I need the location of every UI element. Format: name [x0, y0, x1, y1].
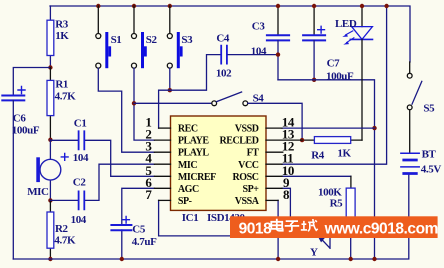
microphone MIC [27, 140, 68, 201]
wire pin7 SP- run under IC [159, 200, 322, 236]
pin 13 lead [266, 139, 302, 141]
wire S3 node to pin1 riser and to C4 [159, 55, 221, 129]
svg-text:C4: C4 [216, 33, 230, 45]
svg-text:ROSC: ROSC [233, 172, 259, 183]
wire S2 node to S4 [134, 102, 212, 104]
op-amp IC1 ISD1420 body [171, 116, 267, 224]
svg-text:4.5V: 4.5V [421, 164, 442, 176]
battery BT 4.5V [401, 149, 441, 176]
svg-text:104: 104 [71, 214, 87, 226]
svg-text:4.7K: 4.7K [55, 90, 77, 102]
svg-text:VCC: VCC [238, 160, 259, 171]
pin 5 lead [154, 175, 170, 177]
node junction S3 top rail [168, 4, 172, 8]
svg-text:S3: S3 [181, 34, 193, 46]
svg-text:102: 102 [216, 68, 232, 80]
watermark band 9018 [230, 216, 438, 238]
node junction R1/C1/MIC [48, 138, 52, 142]
pin 1 lead [159, 127, 171, 129]
svg-text:100uF: 100uF [326, 71, 354, 83]
svg-text:R3: R3 [55, 19, 69, 31]
svg-text:PLAYE: PLAYE [178, 136, 210, 147]
node junction S2/S4/pin1 line [132, 101, 136, 105]
pin 8 lead [266, 199, 278, 201]
svg-text:BT: BT [422, 149, 437, 161]
svg-text:C3: C3 [252, 21, 266, 33]
node junction MIC/C2/R2 [48, 198, 52, 202]
pin 4 lead [154, 163, 170, 165]
resistor R2 [47, 200, 76, 259]
svg-text:VSSA: VSSA [235, 196, 260, 207]
svg-text:FT: FT [247, 148, 260, 159]
svg-text:MIC: MIC [178, 160, 197, 171]
node junction S1 top rail [96, 4, 100, 8]
capacitor C6 100uF [2, 87, 40, 260]
capacitor C2 104 [50, 164, 154, 226]
node junction C5/bottom rail [120, 257, 124, 261]
node junction S4/R4/pin13 [300, 138, 304, 142]
svg-text:MIC: MIC [27, 186, 49, 198]
wire bottom ground rail [13, 174, 409, 259]
svg-text:C7: C7 [327, 57, 341, 69]
resistor R5 100K potentiometer [282, 176, 355, 259]
switch S3 [167, 6, 193, 90]
capacitor C7 100uF [303, 6, 354, 83]
pin 2 lead [154, 139, 170, 141]
svg-text:C5: C5 [132, 223, 146, 235]
resistor R4 1K [302, 39, 362, 161]
svg-text:7: 7 [145, 187, 152, 202]
svg-text:104: 104 [73, 152, 89, 164]
svg-text:9018: 9018 [239, 220, 273, 237]
node junction C7 top rail [312, 4, 316, 8]
node junction C4/C3 [276, 52, 280, 56]
node junction C7/ground run [312, 78, 316, 82]
svg-text:S2: S2 [146, 34, 158, 46]
svg-text:1K: 1K [337, 148, 351, 160]
switch S1 [96, 6, 155, 152]
svg-text:SP-: SP- [178, 196, 192, 207]
svg-text:1K: 1K [55, 30, 69, 42]
capacitor C5 4.7uF [111, 188, 157, 259]
pin 11 lead [266, 163, 282, 165]
node junction VSSA/bottom rail [276, 257, 280, 261]
wire top supply rail [50, 6, 410, 62]
svg-text:LED: LED [335, 18, 357, 30]
svg-text:C1: C1 [74, 118, 87, 130]
svg-text:REC: REC [178, 124, 198, 135]
wire pin9 SP+ down [282, 188, 290, 226]
pin 7 lead [159, 199, 171, 201]
svg-text:C2: C2 [73, 176, 87, 188]
svg-text:Y: Y [310, 246, 318, 258]
node junction VSSD riser/pin14 [372, 126, 376, 130]
svg-text:S1: S1 [111, 34, 122, 46]
wire pin14 to VSSD riser [282, 127, 375, 129]
pin 10 lead [266, 175, 282, 177]
svg-text:R5: R5 [330, 198, 344, 210]
node junction S3/C4/REC [168, 88, 172, 92]
svg-text:PLAYL: PLAYL [178, 148, 210, 159]
node junction R5/bottom rail [349, 257, 353, 261]
LED [335, 6, 373, 45]
svg-text:IC1: IC1 [182, 212, 199, 224]
svg-text:www.c9018.com: www.c9018.com [324, 220, 438, 237]
svg-text:RECLED: RECLED [220, 136, 259, 147]
svg-text:104: 104 [251, 46, 267, 58]
node junction S2 top rail [132, 4, 136, 8]
svg-text:100uF: 100uF [12, 125, 40, 137]
svg-text:100K: 100K [318, 186, 342, 198]
svg-text:R2: R2 [55, 223, 69, 235]
svg-text:8: 8 [283, 187, 290, 202]
switch S2 [132, 6, 158, 140]
pin 14 lead [266, 127, 282, 129]
wire junction to C6 [13, 68, 50, 96]
node junction VCC line top rail [384, 4, 388, 8]
pin 3 lead [154, 151, 170, 153]
svg-text:R1: R1 [55, 78, 68, 90]
node junction VSSD riser/bottom rail [372, 257, 376, 261]
svg-text:VSSD: VSSD [235, 124, 259, 135]
node junction LED top rail [360, 4, 364, 8]
node junction R3/R1 [48, 65, 52, 69]
capacitor C3 104 [251, 6, 289, 80]
svg-text:MICREF: MICREF [178, 172, 216, 183]
pin 6 lead [154, 187, 170, 189]
pin 12 lead FT stub [266, 151, 283, 153]
svg-text:SP+: SP+ [242, 184, 259, 195]
switch S5 [407, 62, 435, 153]
svg-text:R4: R4 [311, 150, 325, 162]
resistor R3 [47, 6, 69, 68]
node junction C3 top rail [276, 4, 280, 8]
resistor R1 [47, 68, 76, 140]
speaker Y [310, 234, 330, 258]
pin 9 lead [266, 187, 282, 189]
svg-text:4.7K: 4.7K [54, 235, 76, 247]
capacitor C4 102 [216, 33, 278, 80]
svg-text:S5: S5 [423, 102, 435, 114]
svg-text:4.7uF: 4.7uF [132, 236, 157, 248]
wire VCC riser from top rail to pin 11 [282, 6, 387, 164]
node junction R2/bottom rail [48, 257, 52, 261]
capacitor C1 104 [50, 118, 154, 177]
wire ground run C3/C7 to VSSD riser [278, 80, 375, 259]
svg-text:C6: C6 [13, 113, 27, 125]
svg-text:S4: S4 [253, 92, 265, 104]
svg-text:AGC: AGC [178, 184, 199, 195]
wire pin8 VSSA down to ground rail [277, 200, 279, 259]
switch S4 [212, 92, 302, 140]
